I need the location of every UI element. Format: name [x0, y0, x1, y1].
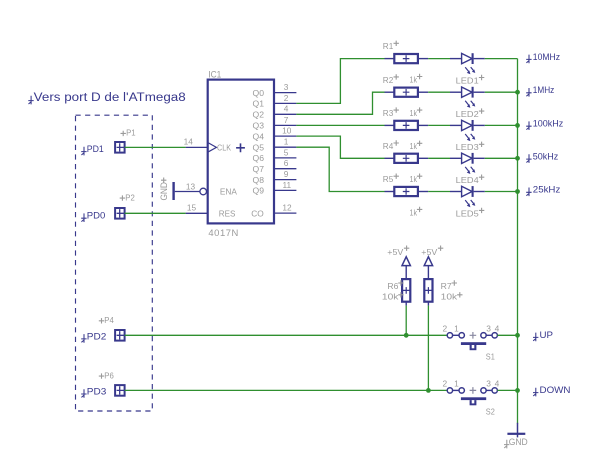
- svg-text:PD1: PD1: [87, 144, 104, 154]
- svg-text:R2: R2: [383, 75, 394, 85]
- label R1: [383, 41, 399, 52]
- svg-text:R6: R6: [387, 281, 398, 291]
- net label 50kHz: [526, 152, 558, 163]
- svg-text:LED4: LED4: [456, 175, 479, 185]
- net label PD0: [81, 211, 105, 222]
- junction bus row 4: [515, 156, 520, 161]
- junction R6 / PD2 wire: [404, 333, 409, 338]
- wire Q5 pin1 to R5: [296, 147, 384, 191]
- net label PD3: [81, 386, 106, 397]
- svg-text:S1: S1: [486, 352, 495, 362]
- wire R7 to DOWN row: [427, 306, 429, 391]
- junction R7 / PD3 wire: [426, 388, 431, 393]
- svg-text:UP: UP: [540, 330, 554, 341]
- svg-text:3: 3: [486, 379, 491, 389]
- pin 14 CLK: [184, 136, 245, 152]
- resistor R1 1k: [385, 54, 429, 63]
- net label 25kHz: [526, 185, 560, 196]
- svg-text:P2: P2: [125, 192, 135, 202]
- wire R6 to UP row: [405, 306, 407, 336]
- svg-text:Q3: Q3: [253, 121, 265, 131]
- pin 6 Q7: [253, 158, 297, 174]
- connector P6 (PD3): [115, 385, 125, 396]
- LED LED5: [450, 186, 485, 207]
- svg-text:GND: GND: [509, 437, 528, 447]
- resistor R5 1k: [385, 187, 429, 196]
- net label UP: [533, 330, 553, 341]
- svg-text:RES: RES: [219, 209, 236, 219]
- wire LED1 to bus: [485, 58, 518, 60]
- resistor R4 1k: [385, 154, 429, 163]
- svg-text:1: 1: [454, 379, 459, 389]
- label P2: [120, 192, 135, 202]
- svg-text:2: 2: [284, 93, 289, 103]
- svg-text:R1: R1: [383, 41, 394, 51]
- pin 5 Q6: [253, 147, 297, 163]
- connector P1 (PD1): [115, 142, 125, 153]
- label P4: [99, 315, 114, 325]
- svg-text:S2: S2: [486, 407, 495, 417]
- net label PD1: [81, 144, 104, 155]
- LED LED2: [450, 87, 485, 108]
- svg-text:9: 9: [284, 169, 289, 179]
- svg-text:R5: R5: [383, 174, 394, 184]
- svg-text:10MHz: 10MHz: [533, 52, 560, 63]
- label LED1: [456, 75, 485, 86]
- svg-text:10k: 10k: [382, 291, 399, 301]
- svg-text:1k: 1k: [410, 108, 418, 118]
- wire LED4 to bus: [485, 157, 518, 159]
- label LED4: [456, 175, 485, 186]
- svg-text:ENA: ENA: [220, 187, 237, 197]
- svg-text:1: 1: [454, 324, 459, 334]
- wire Q2 pin4 to R2: [296, 92, 384, 114]
- svg-text:PD2: PD2: [87, 331, 107, 341]
- wire LED5 to bus: [485, 191, 518, 193]
- svg-text:1: 1: [284, 137, 289, 147]
- value 1k (R3): [410, 141, 423, 152]
- svg-text:Q8: Q8: [253, 175, 265, 185]
- wire ground bus vertical: [517, 59, 519, 424]
- wire Q1 pin2 to R1: [296, 59, 384, 104]
- svg-text:1k: 1k: [410, 207, 418, 217]
- net label: Vers port D de lATmega8: [28, 92, 185, 104]
- svg-text:Q6: Q6: [253, 153, 265, 163]
- svg-text:7: 7: [284, 115, 289, 125]
- svg-text:PD3: PD3: [87, 386, 107, 396]
- power symbol +5V (R7 side): [421, 246, 443, 266]
- value 1k (R4): [410, 174, 423, 185]
- connector P2 (PD0): [115, 208, 125, 219]
- wire R3 to LED3: [428, 124, 450, 126]
- wire R2 to LED2: [428, 91, 450, 93]
- pin 15 RES: [186, 203, 236, 219]
- pin 3 Q0: [253, 82, 297, 98]
- power symbol +5V (R6 side): [387, 246, 410, 266]
- wire R5 to LED5: [428, 191, 450, 193]
- svg-text:P6: P6: [104, 370, 114, 380]
- svg-text:15: 15: [187, 203, 197, 213]
- label R7: [441, 280, 457, 291]
- svg-text:1MHz: 1MHz: [533, 85, 555, 96]
- net label DOWN: [533, 385, 571, 396]
- pin numbers S1: [442, 324, 499, 334]
- net label PD2: [81, 331, 106, 342]
- svg-text:LED5: LED5: [456, 208, 479, 218]
- switch S2: [447, 388, 497, 406]
- svg-text:R7: R7: [441, 281, 452, 291]
- wire +5V to R7: [427, 266, 429, 280]
- svg-text:LED2: LED2: [456, 109, 479, 119]
- svg-text:3: 3: [486, 324, 491, 334]
- pin 9 Q8: [253, 169, 297, 185]
- svg-text:4: 4: [284, 104, 289, 114]
- svg-text:1k: 1k: [410, 141, 418, 151]
- LED LED1: [450, 53, 485, 74]
- label R3: [383, 107, 399, 118]
- wire LED3 to bus: [485, 124, 518, 126]
- svg-text:50kHz: 50kHz: [533, 152, 559, 163]
- svg-text:CLK: CLK: [217, 142, 231, 152]
- value 1k (R5): [410, 207, 423, 218]
- label GND (bottom): [504, 437, 528, 448]
- pin 7 Q3: [253, 115, 297, 131]
- svg-text:2: 2: [442, 324, 447, 334]
- svg-text:+5V: +5V: [421, 247, 437, 257]
- junction bus S1: [515, 333, 520, 338]
- svg-text:CO: CO: [251, 208, 264, 218]
- wire PD3 to S2: [125, 389, 448, 391]
- dashed box: port D connector group: [76, 115, 153, 411]
- wire Q4 pin10 to R4: [296, 136, 384, 158]
- svg-text:Q0: Q0: [253, 88, 265, 98]
- value 10k (R6): [382, 291, 404, 301]
- wire PD2 to S1: [125, 334, 448, 336]
- origin cross S1: [470, 332, 477, 339]
- pin 4 Q2: [253, 104, 297, 120]
- svg-text:1k: 1k: [410, 74, 418, 84]
- net label 1MHz: [526, 85, 554, 96]
- pin 2 Q1: [253, 93, 297, 109]
- label R5: [383, 174, 399, 185]
- svg-text:LED3: LED3: [456, 142, 479, 152]
- svg-text:Vers port D de l'ATmega8: Vers port D de l'ATmega8: [34, 92, 186, 104]
- svg-text:DOWN: DOWN: [540, 385, 571, 396]
- pin 10 Q4: [253, 126, 297, 142]
- wire S2 to bus: [497, 389, 517, 391]
- IC IC1 4017N body: [208, 80, 274, 224]
- label R6: [387, 280, 403, 291]
- ground symbol GND (at ENA): [159, 178, 175, 201]
- wire LED2 to bus: [485, 91, 518, 93]
- pin 1 Q5: [253, 137, 297, 153]
- svg-text:IC1: IC1: [208, 69, 221, 79]
- LED LED3: [450, 120, 485, 141]
- junction bus S2: [515, 388, 520, 393]
- label R2: [383, 74, 399, 85]
- svg-text:4: 4: [495, 379, 500, 389]
- origin cross S2: [470, 387, 477, 394]
- svg-text:P1: P1: [126, 128, 136, 138]
- svg-text:Q9: Q9: [253, 186, 265, 196]
- pin 12 CO: [251, 203, 296, 219]
- label LED5: [456, 208, 485, 219]
- wire R4 to LED4: [428, 157, 450, 159]
- wire PD0 to RES pin 15: [125, 212, 186, 214]
- connector P4 (PD2): [115, 330, 125, 341]
- resistor R2 1k: [385, 88, 429, 97]
- svg-text:Q4: Q4: [253, 131, 265, 141]
- svg-text:4017N: 4017N: [208, 228, 239, 238]
- svg-text:R3: R3: [383, 108, 394, 118]
- resistor R3 1k: [385, 121, 429, 130]
- svg-text:GND: GND: [159, 182, 169, 201]
- resistor R6 10k: [402, 279, 410, 306]
- net label 100kHz: [526, 119, 563, 130]
- label R4: [383, 140, 399, 151]
- wire +5V to R6: [405, 266, 407, 280]
- wire Q3 pin7 to R3: [296, 124, 384, 126]
- junction bus row 5: [515, 189, 520, 194]
- wire S1 to bus: [497, 334, 517, 336]
- value 1k (R2): [410, 107, 423, 118]
- svg-text:+5V: +5V: [387, 247, 403, 257]
- wire R1 to LED1: [428, 58, 450, 60]
- svg-text:10: 10: [282, 126, 292, 136]
- svg-text:25kHz: 25kHz: [533, 185, 561, 196]
- junction bus row 3: [515, 123, 520, 128]
- svg-text:R4: R4: [383, 141, 394, 151]
- label LED2: [456, 108, 485, 119]
- svg-text:10k: 10k: [441, 291, 458, 301]
- label P6: [99, 370, 114, 380]
- value 10k (R7): [441, 291, 463, 301]
- svg-text:Q1: Q1: [253, 99, 265, 109]
- svg-text:2: 2: [442, 379, 447, 389]
- svg-text:P4: P4: [104, 315, 114, 325]
- svg-text:Q5: Q5: [253, 142, 265, 152]
- svg-text:Q7: Q7: [253, 164, 265, 174]
- svg-text:PD0: PD0: [87, 211, 106, 221]
- svg-text:1k: 1k: [410, 174, 418, 184]
- svg-text:LED1: LED1: [456, 75, 479, 85]
- svg-text:Q2: Q2: [253, 110, 265, 120]
- pin numbers S2: [442, 379, 499, 389]
- svg-text:100kHz: 100kHz: [533, 119, 564, 130]
- junction bus row 2: [515, 90, 520, 95]
- value 1k (R1): [410, 74, 423, 85]
- svg-text:13: 13: [186, 181, 196, 191]
- svg-text:4: 4: [495, 324, 500, 334]
- label P1: [121, 128, 136, 138]
- label LED3: [456, 142, 485, 153]
- svg-text:12: 12: [282, 203, 292, 213]
- LED LED4: [450, 153, 485, 174]
- svg-text:3: 3: [284, 82, 289, 92]
- pin 13 ENA: [175, 181, 238, 196]
- svg-text:14: 14: [184, 136, 194, 146]
- switch S1: [447, 333, 497, 351]
- wire PD1 to CLK pin 14: [125, 146, 186, 148]
- net label 10MHz: [526, 52, 560, 63]
- svg-text:5: 5: [284, 147, 289, 157]
- resistor R7 10k: [424, 279, 432, 306]
- ground symbol GND (bottom): [507, 423, 525, 438]
- svg-text:6: 6: [284, 158, 289, 168]
- pin 11 Q9: [253, 180, 297, 196]
- svg-text:11: 11: [282, 180, 291, 190]
